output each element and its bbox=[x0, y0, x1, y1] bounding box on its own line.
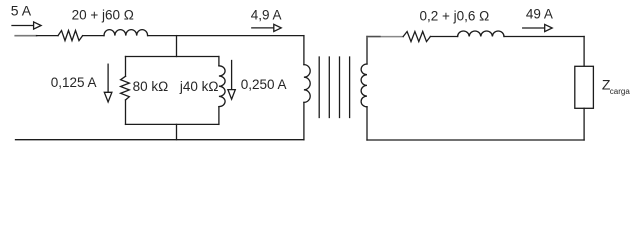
svg-text:20 + j60 Ω: 20 + j60 Ω bbox=[72, 8, 134, 23]
svg-text:49 A: 49 A bbox=[526, 6, 553, 21]
svg-text:5 A: 5 A bbox=[11, 2, 32, 18]
svg-text:0,2 + j0,6 Ω: 0,2 + j0,6 Ω bbox=[420, 8, 490, 23]
svg-text:carga: carga bbox=[610, 87, 631, 96]
svg-text:j40 kΩ: j40 kΩ bbox=[179, 79, 219, 94]
svg-text:80 kΩ: 80 kΩ bbox=[133, 79, 169, 94]
svg-text:0,125 A: 0,125 A bbox=[51, 75, 97, 90]
svg-text:4,9 A: 4,9 A bbox=[251, 7, 282, 22]
svg-text:0,250 A: 0,250 A bbox=[241, 77, 287, 92]
